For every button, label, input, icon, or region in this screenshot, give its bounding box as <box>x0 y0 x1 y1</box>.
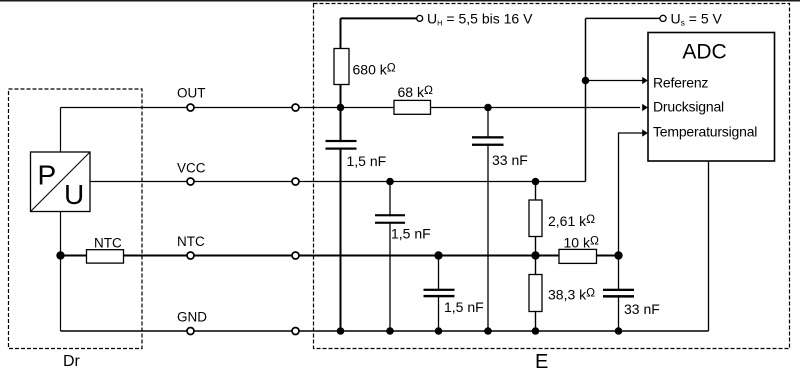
svg-text:P: P <box>38 160 57 191</box>
svg-text:Us = 5 V: Us = 5 V <box>671 10 723 27</box>
arrow Drucksignal <box>642 104 648 111</box>
wire ADC ground riser <box>708 161 710 331</box>
wire sensor bottom riser <box>60 212 62 332</box>
svg-text:Temperatursignal: Temperatursignal <box>653 124 757 140</box>
node junction sensor NTC <box>56 251 64 259</box>
node GND x438 <box>435 327 443 335</box>
svg-text:33 nF: 33 nF <box>624 301 660 317</box>
wire riser x536 VCC to GND <box>535 182 537 332</box>
node GND x340 <box>337 327 345 335</box>
svg-text:NTC: NTC <box>94 236 122 251</box>
svg-text:ADC: ADC <box>682 41 726 64</box>
capacitor C4 1.5nF at x438 <box>424 289 455 298</box>
ECU block dashed border E <box>314 4 790 349</box>
resistor R1 680k <box>334 49 349 85</box>
svg-text:NTC: NTC <box>177 234 205 249</box>
wire riser x620 NTC to GND <box>618 256 620 332</box>
svg-text:1,5 nF: 1,5 nF <box>391 226 431 242</box>
wire supply riser x340 <box>340 18 342 331</box>
sensor block dashed border Dr <box>9 89 143 349</box>
svg-text:Drucksignal: Drucksignal <box>653 99 724 115</box>
page top border line <box>0 0 800 2</box>
wire UH supply segment <box>341 17 417 19</box>
node GND x390 <box>386 327 394 335</box>
node GND x488 <box>484 327 492 335</box>
arrow Referenz <box>642 77 648 84</box>
connector circles OUT <box>187 104 194 111</box>
svg-text:E: E <box>535 351 548 373</box>
terminal UH <box>417 15 423 21</box>
svg-text:U: U <box>64 179 84 210</box>
svg-text:VCC: VCC <box>177 160 206 175</box>
node NTC x438 <box>434 251 442 259</box>
wire GND rail <box>61 330 709 332</box>
capacitor C5 33nF at x620 <box>603 289 634 298</box>
svg-text:1,5 nF: 1,5 nF <box>444 299 484 315</box>
node OUT x340 <box>337 104 345 112</box>
svg-text:Referenz: Referenz <box>653 75 708 91</box>
terminal US <box>660 15 666 21</box>
capacitor C1 1.5nF at x340 <box>326 140 357 150</box>
svg-text:Dr: Dr <box>63 353 81 370</box>
node NTC x620 <box>614 251 622 259</box>
node NTC x536 <box>531 251 539 259</box>
wire Temperatursignal branch <box>619 133 644 256</box>
wire Referenz branch <box>586 80 644 82</box>
sensor cell P/U box <box>31 152 91 212</box>
node GND x536 <box>532 327 540 335</box>
resistor R4 38.3k <box>529 275 542 312</box>
svg-text:1,5 nF: 1,5 nF <box>347 153 387 169</box>
resistor R5 10k <box>559 249 597 263</box>
ADC box U1 <box>648 33 775 162</box>
wire sensor top riser <box>60 108 62 153</box>
resistor R2 68k <box>394 100 431 114</box>
node VCC x390 <box>386 178 394 186</box>
arrow Temperatursignal <box>642 129 648 136</box>
wire US riser x586 <box>585 18 587 181</box>
node OUT x488 <box>484 104 492 112</box>
resistor R3 2.61k <box>529 200 542 237</box>
capacitor C2 33nF at x488 <box>472 136 504 146</box>
wire riser x488 OUT to GND <box>487 108 489 332</box>
wire NTC rail <box>61 255 619 257</box>
connector circles NTC <box>187 252 194 259</box>
wire VCC rail <box>90 181 586 183</box>
wire OUT rail <box>61 107 641 109</box>
svg-text:GND: GND <box>177 310 207 325</box>
node Referenz junction <box>582 77 590 85</box>
svg-text:33 nF: 33 nF <box>492 152 528 168</box>
resistor NTC (sensor) <box>87 250 124 263</box>
capacitor C3 1.5nF at x390 <box>375 214 405 224</box>
node VCC x536 <box>532 178 540 186</box>
connector circles GND <box>187 328 194 335</box>
svg-text:UH = 5,5 bis 16 V: UH = 5,5 bis 16 V <box>427 10 533 27</box>
connector circles VCC <box>187 178 194 185</box>
wire US supply segment <box>586 17 660 19</box>
wire riser x390 VCC to GND <box>389 182 391 332</box>
node GND x620 <box>615 327 623 335</box>
svg-text:OUT: OUT <box>177 86 206 101</box>
wire riser x438 NTC to GND <box>438 256 440 332</box>
